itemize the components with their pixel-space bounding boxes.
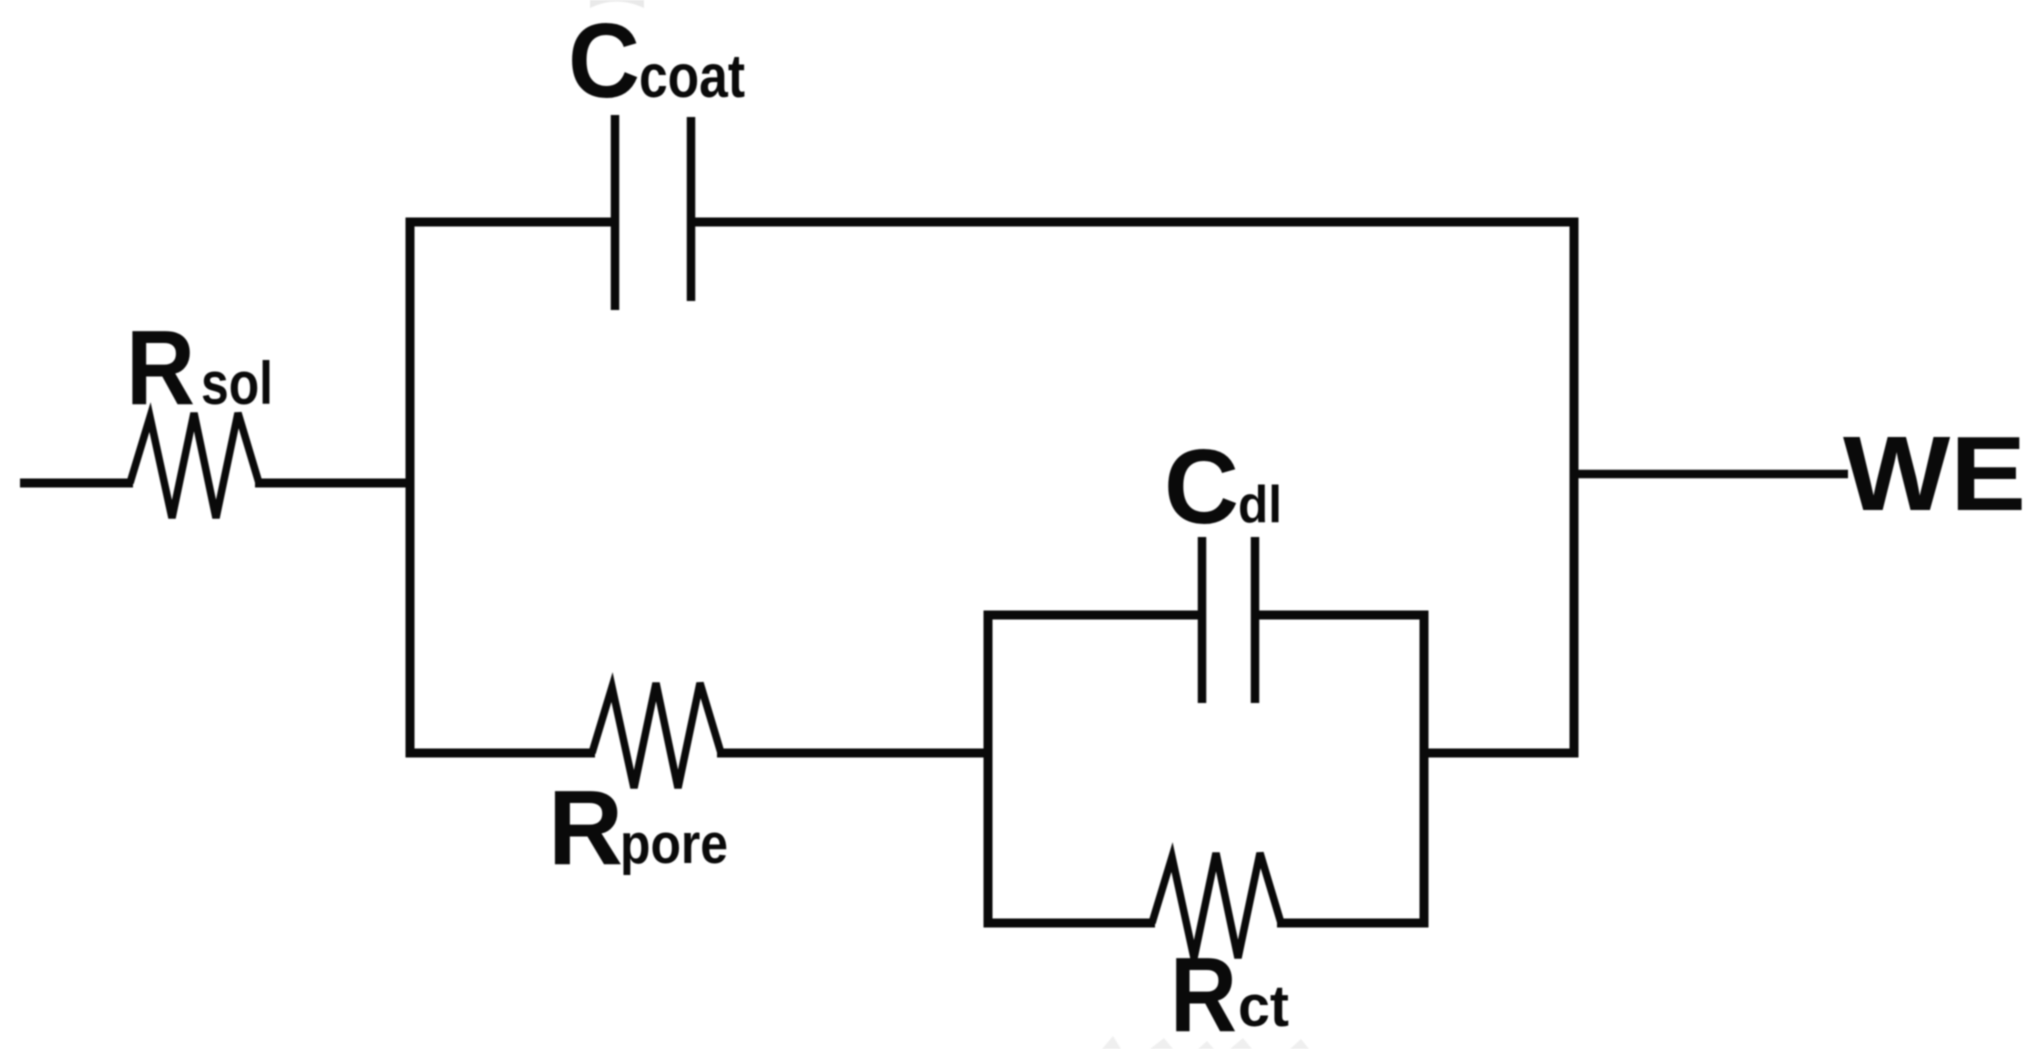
capacitor C2 Cdl right plate	[1251, 537, 1260, 703]
wire: inner box bottom rail right segment	[1277, 919, 1428, 928]
faint cropped glyph remnant bottom	[1102, 1036, 1309, 1049]
svg-text:R: R	[1170, 936, 1237, 1049]
svg-text:coat: coat	[639, 42, 745, 110]
capacitor C1 Ccoat left plate	[611, 115, 620, 310]
svg-text:C: C	[568, 2, 640, 120]
resistor R3 Rct zigzag	[1152, 853, 1281, 958]
faint cropped glyph remnant top	[590, 0, 644, 8]
capacitor C2 Cdl left plate	[1198, 537, 1207, 703]
svg-text:R: R	[126, 309, 195, 427]
svg-text:dl: dl	[1238, 476, 1282, 534]
resistor R1 Rsol zigzag	[130, 413, 259, 518]
svg-text:ct: ct	[1238, 974, 1289, 1039]
wire: inner box right vertical	[1420, 611, 1429, 928]
wire: output lead to WE	[1578, 470, 1848, 479]
wire: inner box left vertical	[984, 611, 993, 928]
svg-text:R: R	[548, 769, 623, 887]
wire: Rsol to node A (outer box left)	[255, 479, 414, 488]
svg-text:sol: sol	[201, 350, 273, 417]
wire: Rpore to inner box left	[717, 749, 992, 758]
wire: inner box bottom rail left segment	[984, 919, 1155, 928]
wire: inner box right to outer box right at bottom rail level	[1424, 749, 1578, 758]
wire: outer box top rail right segment	[689, 218, 1578, 227]
wire: inner box top rail left segment	[984, 611, 1204, 620]
wire: inner box top rail right segment	[1253, 611, 1428, 620]
svg-text:C: C	[1164, 428, 1239, 546]
capacitor C1 Ccoat right plate	[687, 117, 696, 301]
wire: outer box right vertical	[1570, 218, 1579, 758]
wire: outer box bottom rail left segment	[406, 749, 595, 758]
wire: outer box left vertical	[406, 218, 415, 758]
wire: outer box top rail left segment	[406, 218, 617, 227]
svg-text:WE: WE	[1843, 415, 2026, 533]
wire: input lead left of Rsol	[20, 479, 133, 488]
svg-text:pore: pore	[620, 812, 728, 876]
resistor R2 Rpore zigzag	[592, 683, 721, 788]
